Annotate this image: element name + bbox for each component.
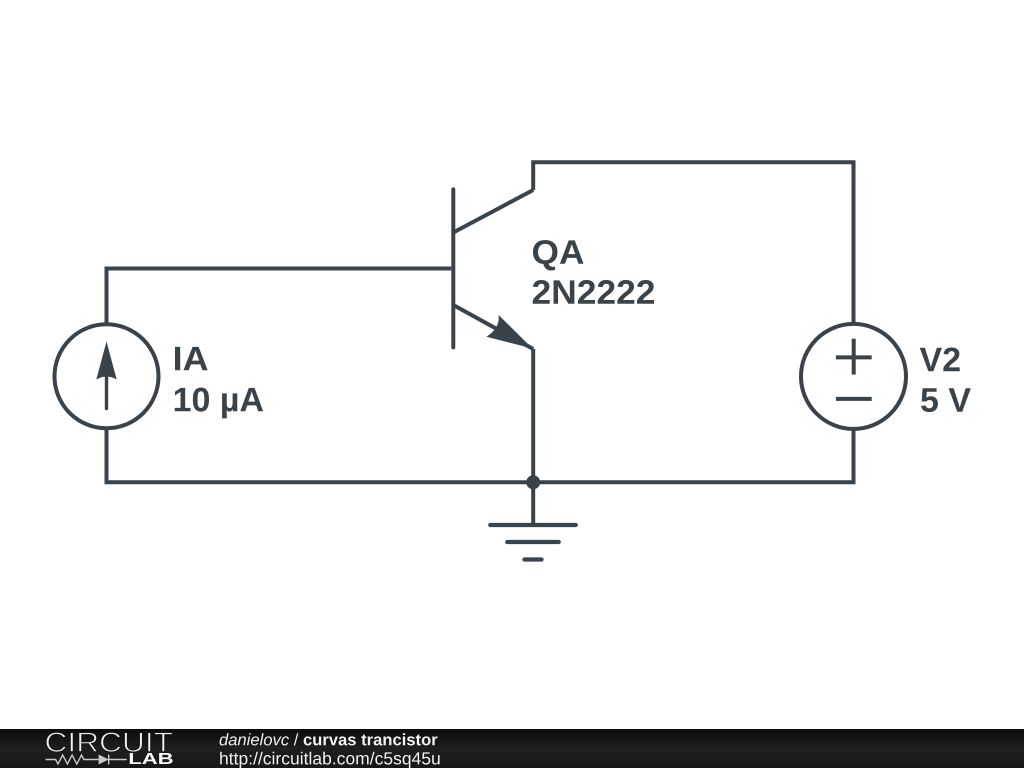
label QA bbox=[533, 240, 654, 304]
label V2 value bbox=[920, 347, 971, 412]
junction node bbox=[526, 475, 540, 489]
wire: collector top rail to V2 top bbox=[533, 162, 853, 324]
footer bar bbox=[0, 729, 1024, 768]
wire: junction to ground bbox=[531, 482, 535, 525]
current source IA bbox=[55, 324, 159, 428]
base bar bbox=[451, 189, 455, 347]
wire base: IA top to transistor base bbox=[107, 269, 452, 325]
collector diagonal bbox=[453, 190, 533, 233]
emitter diagonal bbox=[453, 305, 533, 349]
ground bbox=[490, 525, 575, 560]
emitter arrow bbox=[486, 315, 532, 349]
label IA value bbox=[175, 347, 263, 418]
footer title bbox=[220, 733, 438, 745]
logo resistor-diode bbox=[46, 755, 127, 765]
logo LAB bbox=[130, 753, 173, 764]
footer url bbox=[220, 752, 439, 768]
wire: bottom rail right (junction to V2 bottom) bbox=[535, 428, 853, 482]
wire: bottom rail left (IA bottom to junction) bbox=[107, 428, 532, 482]
logo CIRCUIT bbox=[46, 732, 172, 752]
wire: emitter vertical to junction bbox=[531, 349, 535, 482]
voltage source V2 bbox=[801, 324, 906, 429]
transistor QA (NPN 2N2222) bbox=[453, 189, 533, 349]
